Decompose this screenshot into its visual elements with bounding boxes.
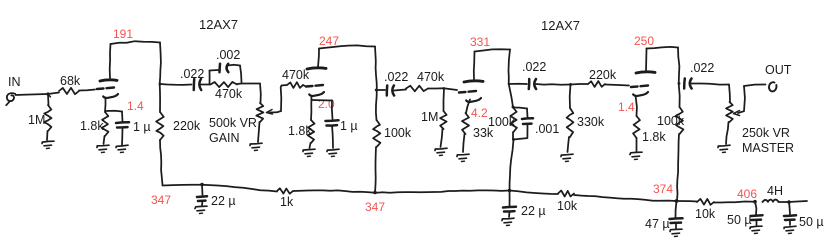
svg-text:347: 347 bbox=[151, 193, 171, 207]
svg-text:191: 191 bbox=[113, 27, 133, 41]
svg-text:.002: .002 bbox=[216, 48, 240, 62]
wire cathode stage 3 bbox=[466, 100, 470, 114]
capacitor 1u cathode bypass stage 2 bbox=[312, 100, 358, 148]
capacitor .022 coupling stage 1 bbox=[180, 67, 210, 90]
svg-text:1.8k: 1.8k bbox=[288, 124, 312, 138]
resistor 1M grid leak stage 3 bbox=[421, 89, 447, 148]
triode V2b 12AX7 stage 4 bbox=[631, 72, 655, 96]
svg-text:1 µ: 1 µ bbox=[340, 119, 358, 133]
svg-text:50 µ: 50 µ bbox=[727, 213, 752, 227]
junction plate node stage 2 bbox=[375, 89, 378, 92]
ground under 1M stage 1 bbox=[42, 141, 54, 148]
junction plate node stage 3 top bbox=[512, 106, 515, 109]
capacitor .001 plate bypass stage 3 bbox=[513, 108, 559, 140]
svg-text:4.2: 4.2 bbox=[471, 106, 488, 120]
resistor 100k plate load stage 4 bbox=[657, 107, 685, 201]
capacitor 47u filter bbox=[645, 201, 683, 231]
capacitor .002 bright cap bbox=[210, 48, 242, 85]
wire cathode stage 4 bbox=[636, 96, 637, 117]
wire plate stage 1 to B+ rail bbox=[110, 41, 161, 112]
capacitor .022 coupling stage 3 bbox=[522, 60, 570, 89]
resistor 470k bright resistor bbox=[211, 82, 243, 101]
wire plate stage 4 to B+ rail bbox=[646, 47, 680, 107]
ground under 50u filter 1 bbox=[750, 226, 762, 233]
capacitor 50u filter 1 bbox=[727, 202, 763, 227]
wire plate stage 3 to B+ rail bbox=[474, 49, 513, 107]
ground under 33k stage 3 bbox=[457, 154, 469, 161]
wire stage 3 plate node to B+ rail bbox=[510, 140, 514, 191]
svg-text:22 µ: 22 µ bbox=[211, 194, 236, 208]
ground under 1M stage 3 bbox=[435, 148, 447, 155]
junction grid node stage 4 bbox=[569, 83, 572, 86]
svg-text:220k: 220k bbox=[589, 68, 617, 82]
svg-text:GAIN: GAIN bbox=[209, 131, 240, 145]
svg-text:4H: 4H bbox=[767, 184, 783, 198]
svg-text:.001: .001 bbox=[535, 122, 559, 136]
svg-text:250k VR: 250k VR bbox=[742, 126, 790, 140]
ground under 47u filter bbox=[670, 229, 682, 236]
wire input jack to grid node bbox=[16, 94, 49, 95]
svg-text:1M: 1M bbox=[28, 113, 45, 127]
node voltage 347 second bbox=[365, 200, 385, 214]
svg-text:12AX7: 12AX7 bbox=[199, 17, 238, 32]
junction B+ node 347 first bbox=[200, 183, 204, 187]
resistor 470k series stage 3 bbox=[406, 70, 457, 91]
svg-text:220k: 220k bbox=[173, 119, 201, 133]
wire cathode stage 1 bbox=[104, 98, 107, 113]
resistor 330k grid leak stage 4 bbox=[567, 85, 605, 153]
svg-text:IN: IN bbox=[8, 75, 21, 89]
svg-text:470k: 470k bbox=[215, 87, 243, 101]
wire plate stage 2 to coupling cap bbox=[376, 89, 385, 91]
svg-text:331: 331 bbox=[470, 35, 490, 49]
svg-text:10k: 10k bbox=[695, 207, 716, 221]
resistor 1.8k cathode stage 4 bbox=[633, 116, 666, 151]
wire plate stage 2 to B+ rail bbox=[318, 45, 377, 120]
resistor 33k cathode stage 3 bbox=[462, 113, 494, 152]
resistor 10k supply dropper 2 bbox=[695, 199, 716, 221]
junction B+ node 374 bbox=[675, 199, 679, 203]
input jack IN bbox=[6, 75, 20, 105]
svg-text:1.4: 1.4 bbox=[127, 99, 144, 113]
label 12AX7 second tube bbox=[541, 18, 580, 33]
junction B+ output node bbox=[787, 200, 791, 204]
capacitor 1u cathode bypass stage 1 bbox=[106, 111, 151, 145]
node voltage 191 plate stage 1 bbox=[113, 27, 133, 41]
svg-text:68k: 68k bbox=[60, 74, 81, 88]
ground under 22u filter 1 bbox=[195, 206, 207, 213]
ground under 1u stage 1 bbox=[116, 145, 128, 152]
resistor 220k grid stage 4 bbox=[571, 68, 630, 87]
ground under 1.8k stage 2 bbox=[303, 149, 315, 156]
resistor 220k plate load stage 1 bbox=[156, 112, 201, 185]
resistor 10k supply dropper 1 bbox=[557, 191, 578, 214]
capacitor .022 output coupling bbox=[684, 61, 729, 89]
resistor 100k plate load stage 2 bbox=[373, 120, 412, 193]
svg-text:OUT: OUT bbox=[765, 63, 792, 77]
svg-text:.022: .022 bbox=[690, 61, 714, 75]
label 12AX7 first tube bbox=[199, 17, 238, 32]
node voltage 2.0 cathode stage 2 bbox=[318, 97, 335, 111]
triode V2a 12AX7 stage 3 bbox=[459, 81, 483, 102]
svg-text:500k VR: 500k VR bbox=[209, 116, 257, 130]
svg-text:1 µ: 1 µ bbox=[133, 120, 151, 134]
junction plate node stage 1 bbox=[159, 83, 162, 86]
junction B+ node 406 bbox=[753, 200, 757, 204]
svg-text:50 µ: 50 µ bbox=[799, 215, 824, 229]
wire plate stage 3 to coupling cap bbox=[509, 83, 528, 85]
ground under 50u filter 2 bbox=[784, 226, 796, 233]
svg-text:1.8k: 1.8k bbox=[642, 130, 666, 144]
wire B+ rail segment 4 bbox=[574, 195, 677, 201]
svg-text:.022: .022 bbox=[384, 70, 408, 84]
svg-text:1.8k: 1.8k bbox=[80, 119, 104, 133]
capacitor 50u filter 2 bbox=[784, 202, 824, 229]
wire B+ rail segment 2 bbox=[293, 190, 510, 192]
triode V1b 12AX7 stage 2 bbox=[306, 68, 326, 96]
svg-text:1k: 1k bbox=[280, 195, 294, 209]
wire master wiper to output jack bbox=[744, 85, 766, 87]
capacitor .022 coupling stage 2 bbox=[384, 70, 408, 96]
svg-text:.022: .022 bbox=[522, 60, 546, 74]
capacitor 22u filter 1 bbox=[197, 185, 236, 209]
junction plate node stage 3 bottom bbox=[512, 138, 515, 141]
svg-text:374: 374 bbox=[653, 182, 673, 196]
node voltage 347 first bbox=[151, 193, 171, 207]
output jack OUT bbox=[765, 63, 792, 91]
wire bright network to gain pot bbox=[242, 83, 261, 85]
svg-text:470k: 470k bbox=[282, 68, 310, 82]
wiper arrow gain pot bbox=[267, 86, 282, 115]
svg-text:406: 406 bbox=[737, 187, 757, 201]
wire cathode stage 2 bbox=[310, 96, 313, 120]
inductor 4H choke bbox=[763, 184, 783, 202]
node voltage 406 bbox=[737, 187, 757, 201]
potentiometer 250k VR MASTER bbox=[726, 85, 794, 156]
wire plate stage 1 to coupling cap bbox=[160, 83, 192, 86]
resistor 1.8k cathode stage 2 bbox=[288, 120, 315, 148]
ground under 1u stage 2 bbox=[327, 149, 339, 156]
svg-text:22 µ: 22 µ bbox=[521, 204, 546, 218]
junction input node bbox=[46, 92, 50, 97]
svg-text:100k: 100k bbox=[657, 114, 685, 128]
junction B+ node 347 second bbox=[373, 191, 377, 195]
svg-text:12AX7: 12AX7 bbox=[541, 18, 580, 33]
svg-text:330k: 330k bbox=[577, 115, 605, 129]
node voltage 1.4 cathode stage 4 bbox=[618, 100, 635, 114]
node voltage 4.2 cathode stage 3 bbox=[471, 106, 488, 120]
svg-text:100k: 100k bbox=[488, 115, 516, 129]
node voltage 1.4 cathode stage 1 bbox=[127, 99, 144, 113]
svg-text:10k: 10k bbox=[557, 199, 578, 213]
node voltage 331 plate stage 3 bbox=[470, 35, 490, 49]
svg-text:MASTER: MASTER bbox=[742, 141, 794, 155]
resistor 1k supply dropper bbox=[277, 188, 294, 209]
ground under 1.8k stage 1 bbox=[97, 145, 109, 152]
ground under 22u filter 2 bbox=[502, 218, 514, 225]
ground under gain pot bbox=[250, 143, 262, 150]
wire B+ rail segment 3 bbox=[510, 191, 559, 195]
resistor 100k plate load stage 3 bbox=[488, 108, 517, 139]
junction plate node stage 4 bbox=[678, 82, 681, 85]
svg-text:1M: 1M bbox=[421, 110, 438, 124]
ground under 330k stage 4 bbox=[561, 154, 573, 161]
potentiometer 500k VR GAIN bbox=[209, 84, 263, 146]
svg-text:100k: 100k bbox=[384, 126, 412, 140]
junction grid node stage 3 bbox=[443, 87, 446, 90]
triode V1a 12AX7 stage 1 bbox=[97, 80, 118, 98]
svg-text:250: 250 bbox=[634, 34, 654, 48]
svg-text:470k: 470k bbox=[417, 70, 445, 84]
wire B+ rail segment 6 bbox=[714, 202, 755, 203]
svg-text:.022: .022 bbox=[180, 67, 204, 81]
wire B+ rail end bbox=[789, 201, 807, 202]
node voltage 250 plate stage 4 bbox=[634, 34, 654, 48]
resistor 68k grid stopper stage 1 bbox=[48, 74, 95, 94]
ground under master pot bbox=[718, 145, 730, 152]
resistor 1M grid leak stage 1 bbox=[28, 94, 52, 140]
svg-text:347: 347 bbox=[365, 200, 385, 214]
ground under 1.8k stage 4 bbox=[630, 152, 642, 159]
node voltage 247 plate stage 2 bbox=[319, 34, 339, 48]
wiper arrow master pot bbox=[734, 86, 745, 116]
junction B+ node stage 3 bbox=[508, 189, 512, 193]
wire B+ rail segment 7 bbox=[779, 201, 790, 203]
svg-text:47 µ: 47 µ bbox=[645, 217, 670, 231]
svg-text:1.4: 1.4 bbox=[618, 100, 635, 114]
node voltage 374 bbox=[653, 182, 673, 196]
resistor 470k grid stage 2 bbox=[282, 68, 310, 88]
wire B+ rail segment 1 bbox=[163, 185, 278, 192]
wire B+ rail segment 5 bbox=[677, 200, 698, 203]
resistor 1.8k cathode stage 1 bbox=[80, 112, 108, 144]
capacitor 22u filter 2 bbox=[503, 191, 546, 219]
